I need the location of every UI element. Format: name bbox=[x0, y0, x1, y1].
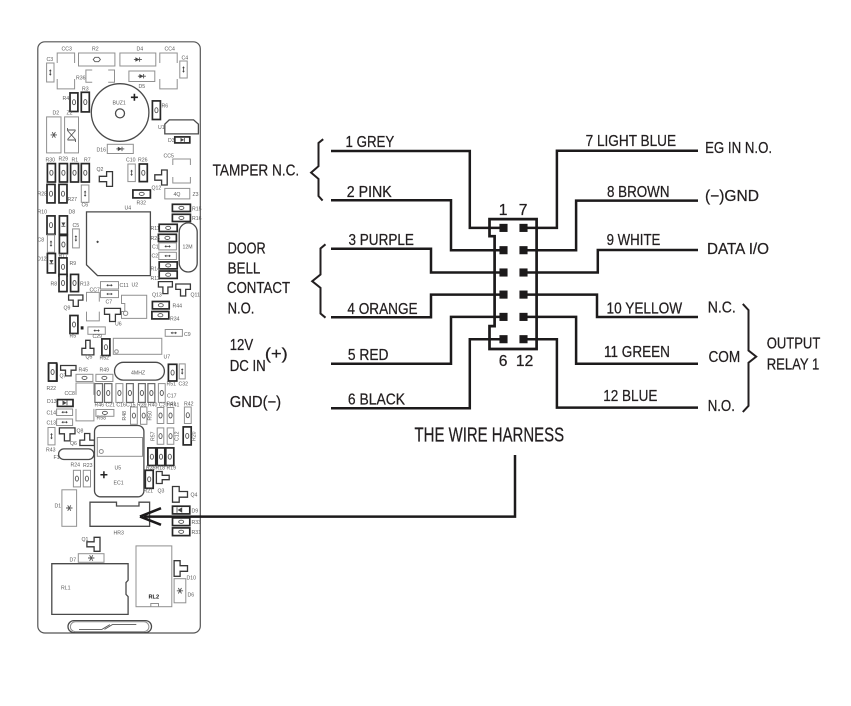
connector pins bbox=[499, 224, 507, 232]
svg-text:Q2: Q2 bbox=[97, 167, 104, 173]
connector body bbox=[490, 219, 537, 349]
svg-text:EG IN N.O.: EG IN N.O. bbox=[705, 140, 772, 157]
resistor R3 bbox=[81, 92, 89, 112]
capacitor C4 bbox=[180, 61, 187, 78]
svg-text:R25: R25 bbox=[151, 236, 161, 242]
svg-text:Z3: Z3 bbox=[193, 192, 199, 198]
diode D3 bbox=[175, 137, 190, 143]
svg-text:12V: 12V bbox=[230, 337, 254, 354]
resistor R13 bbox=[71, 274, 79, 291]
svg-text:R22: R22 bbox=[47, 386, 57, 392]
svg-text:C4: C4 bbox=[182, 56, 189, 62]
resistor R5 bbox=[70, 316, 78, 334]
svg-text:BELL: BELL bbox=[228, 261, 261, 278]
board slot bbox=[68, 621, 152, 633]
svg-text:Q11: Q11 bbox=[191, 293, 201, 299]
resistor R35 bbox=[148, 448, 156, 466]
wire 2 pink bbox=[331, 200, 504, 250]
svg-text:R10: R10 bbox=[38, 210, 48, 216]
svg-text:R52: R52 bbox=[100, 356, 110, 362]
svg-text:R45: R45 bbox=[79, 368, 89, 374]
svg-text:U2: U2 bbox=[132, 283, 139, 289]
buzzer plus mark bbox=[131, 94, 138, 101]
LED D6 bbox=[174, 579, 186, 603]
svg-text:(+): (+) bbox=[265, 346, 288, 363]
svg-text:R34: R34 bbox=[170, 317, 180, 323]
resistor R20 bbox=[183, 427, 191, 445]
svg-text:RELAY 1: RELAY 1 bbox=[767, 356, 820, 373]
resistor R11 bbox=[159, 224, 177, 231]
wire 5 red bbox=[331, 317, 504, 364]
svg-text:D13: D13 bbox=[47, 399, 57, 405]
wire 10 yellow bbox=[524, 295, 699, 317]
transistor Q4 bbox=[173, 487, 188, 503]
svg-text:6 BLACK: 6 BLACK bbox=[348, 392, 406, 409]
svg-text:R7: R7 bbox=[84, 158, 91, 164]
svg-text:R29: R29 bbox=[59, 157, 69, 163]
wire 4 orange bbox=[331, 295, 504, 318]
IC U2 bbox=[122, 295, 147, 318]
transistor Q11 bbox=[176, 284, 191, 296]
diode D5 bbox=[129, 71, 155, 82]
buzzer BUZ1 body bbox=[91, 84, 149, 142]
harness arrowhead bbox=[140, 508, 161, 525]
part bank6 bbox=[148, 384, 155, 403]
resistor R30 bbox=[47, 164, 55, 182]
svg-text:R15: R15 bbox=[192, 207, 202, 213]
svg-text:1: 1 bbox=[499, 202, 508, 219]
svg-text:R24: R24 bbox=[71, 463, 81, 469]
svg-text:N.O.: N.O. bbox=[708, 398, 735, 415]
resistor R44 bbox=[152, 302, 169, 309]
LED D7 bbox=[78, 554, 104, 563]
IC U4 bbox=[87, 212, 151, 276]
svg-text:GND(−): GND(−) bbox=[230, 394, 281, 411]
capacitor C11 bbox=[101, 282, 119, 289]
buzzer BUZ1 hole bbox=[116, 109, 125, 118]
svg-text:R50: R50 bbox=[148, 411, 154, 421]
svg-text:7 LIGHT BLUE: 7 LIGHT BLUE bbox=[586, 133, 677, 150]
LED D1 bbox=[62, 490, 77, 527]
capacitor C32 bbox=[179, 364, 185, 379]
wire 1 grey bbox=[331, 151, 504, 228]
wire 9 white bbox=[524, 250, 699, 273]
resistor R18 bbox=[157, 448, 165, 466]
svg-text:C11: C11 bbox=[120, 283, 129, 289]
capacitor C5 bbox=[73, 229, 80, 248]
svg-text:R57: R57 bbox=[151, 431, 157, 441]
diode D8 bbox=[59, 216, 67, 234]
svg-text:Z2: Z2 bbox=[67, 111, 73, 117]
PCB board outline bbox=[38, 42, 201, 633]
resistor R21 bbox=[145, 470, 153, 488]
svg-text:THE WIRE HARNESS: THE WIRE HARNESS bbox=[415, 425, 565, 447]
transistor Q3 bbox=[156, 472, 169, 484]
capacitor R50a bbox=[141, 407, 147, 424]
svg-text:R8: R8 bbox=[51, 282, 58, 288]
transistor D10 bbox=[174, 561, 187, 577]
transistor Q1 bbox=[87, 537, 100, 551]
svg-text:R26: R26 bbox=[138, 158, 148, 164]
IC U5 EC1 bbox=[95, 426, 144, 497]
diode D4 bbox=[120, 53, 156, 66]
diode D13 bbox=[57, 400, 73, 407]
svg-text:3 PURPLE: 3 PURPLE bbox=[349, 232, 414, 249]
svg-text:DATA I/O: DATA I/O bbox=[707, 241, 769, 258]
LED D2 bbox=[47, 117, 61, 153]
resistor R10 bbox=[47, 216, 55, 234]
svg-text:C17: C17 bbox=[167, 394, 177, 400]
fuse F1 bbox=[59, 449, 94, 460]
svg-text:R32: R32 bbox=[137, 201, 147, 207]
svg-text:R6: R6 bbox=[162, 104, 169, 110]
svg-text:C14: C14 bbox=[47, 411, 57, 417]
transistor Q5 bbox=[82, 340, 94, 355]
transistor U6 bbox=[105, 308, 121, 321]
resistor R19 bbox=[166, 448, 174, 466]
svg-text:R33: R33 bbox=[192, 520, 202, 526]
svg-text:COM: COM bbox=[709, 349, 741, 366]
svg-text:Q4: Q4 bbox=[191, 493, 198, 499]
brace tamper bbox=[311, 139, 323, 200]
part R57 bbox=[157, 428, 164, 444]
svg-text:U5: U5 bbox=[115, 466, 122, 472]
svg-text:D10: D10 bbox=[187, 576, 197, 582]
svg-text:R30: R30 bbox=[46, 158, 56, 164]
svg-text:R46 C21 C16: R46 C21 C16 bbox=[95, 403, 127, 409]
resistor R12 bbox=[159, 271, 177, 278]
svg-text:R48: R48 bbox=[122, 411, 128, 421]
svg-text:C13: C13 bbox=[47, 421, 57, 427]
wire 3 purple bbox=[331, 249, 504, 273]
resistor R33 bbox=[173, 518, 190, 526]
svg-text:C6: C6 bbox=[82, 203, 89, 209]
wire 6 black bbox=[331, 339, 504, 408]
capacitor C8 bbox=[47, 235, 54, 252]
resistor R25 bbox=[158, 234, 176, 241]
svg-text:R21: R21 bbox=[144, 489, 154, 495]
svg-text:6: 6 bbox=[499, 353, 508, 370]
svg-text:R4: R4 bbox=[63, 96, 70, 102]
transistor Q13 bbox=[158, 282, 172, 294]
svg-text:D4: D4 bbox=[137, 47, 144, 53]
zener Z3 bbox=[165, 188, 190, 199]
resistor R22 bbox=[49, 363, 57, 381]
svg-text:C29: C29 bbox=[93, 334, 103, 340]
svg-text:1 GREY: 1 GREY bbox=[346, 134, 395, 151]
resistor R31 bbox=[173, 528, 190, 536]
wire 12 blue bbox=[524, 339, 699, 407]
resistor R29 bbox=[59, 164, 67, 182]
svg-text:Q1: Q1 bbox=[82, 537, 89, 543]
svg-text:R2: R2 bbox=[92, 47, 99, 53]
svg-text:10 YELLOW: 10 YELLOW bbox=[607, 300, 683, 317]
svg-text:C7: C7 bbox=[106, 300, 113, 306]
svg-text:4 ORANGE: 4 ORANGE bbox=[347, 301, 417, 318]
brace output relay bbox=[743, 304, 756, 412]
relay RL2 bbox=[136, 546, 172, 607]
svg-text:R31: R31 bbox=[192, 530, 202, 536]
diode D9 bbox=[173, 506, 190, 514]
svg-text:7: 7 bbox=[519, 202, 528, 219]
svg-text:R20: R20 bbox=[191, 431, 197, 441]
svg-text:12: 12 bbox=[516, 353, 533, 370]
capacitor C7 bbox=[101, 290, 119, 297]
capacitor C13 bbox=[57, 419, 73, 426]
resistor Q7r bbox=[49, 364, 57, 381]
svg-text:D3: D3 bbox=[168, 138, 175, 144]
svg-text:C9: C9 bbox=[184, 332, 191, 338]
svg-text:11 GREEN: 11 GREEN bbox=[604, 344, 670, 361]
svg-text:C1: C1 bbox=[152, 245, 159, 251]
resistor R15 bbox=[172, 204, 190, 211]
svg-text:D1: D1 bbox=[55, 504, 62, 510]
svg-text:N.C.: N.C. bbox=[708, 300, 736, 317]
svg-text:RL2: RL2 bbox=[149, 595, 160, 601]
svg-text:EC1: EC1 bbox=[114, 481, 124, 487]
svg-text:R16: R16 bbox=[192, 216, 202, 222]
svg-text:R3: R3 bbox=[82, 87, 89, 93]
svg-text:U4: U4 bbox=[125, 206, 132, 212]
svg-text:D6: D6 bbox=[188, 593, 195, 599]
capacitor C9 bbox=[165, 330, 182, 337]
svg-text:Q9: Q9 bbox=[64, 306, 71, 312]
svg-text:R51: R51 bbox=[167, 382, 177, 388]
svg-text:2 PINK: 2 PINK bbox=[347, 184, 392, 201]
svg-text:Q5: Q5 bbox=[86, 355, 93, 361]
svg-text:TAMPER N.C.: TAMPER N.C. bbox=[213, 163, 300, 180]
svg-text:C2: C2 bbox=[152, 254, 159, 260]
svg-text:BUZ1: BUZ1 bbox=[113, 101, 126, 107]
part m1 bbox=[157, 408, 164, 424]
svg-text:R1: R1 bbox=[72, 158, 79, 164]
svg-text:D9: D9 bbox=[192, 509, 199, 515]
resistor R52 bbox=[102, 339, 110, 356]
svg-text:F1: F1 bbox=[54, 455, 60, 461]
crystal 4MHZ bbox=[115, 362, 165, 380]
svg-text:D8: D8 bbox=[69, 210, 76, 216]
resistor R34 bbox=[152, 312, 169, 319]
part m2 bbox=[167, 408, 174, 424]
resistor R26 bbox=[139, 164, 147, 182]
svg-text:U1: U1 bbox=[158, 125, 165, 131]
svg-text:D2: D2 bbox=[53, 111, 60, 117]
svg-text:4MHZ: 4MHZ bbox=[131, 371, 145, 377]
transistor Q7 bbox=[61, 366, 76, 376]
capacitor C10 bbox=[128, 164, 135, 182]
svg-text:R11: R11 bbox=[151, 226, 160, 232]
diode D12 bbox=[47, 254, 55, 273]
capacitor C6 bbox=[81, 185, 89, 202]
svg-text:R49: R49 bbox=[100, 368, 110, 374]
resistor R27 bbox=[59, 184, 67, 203]
svg-text:R28: R28 bbox=[38, 192, 48, 198]
svg-text:CC8: CC8 bbox=[65, 391, 75, 397]
part C12c bbox=[167, 428, 174, 444]
svg-text:Q13: Q13 bbox=[152, 293, 162, 299]
transistor Q9 bbox=[69, 295, 83, 306]
svg-text:D12: D12 bbox=[37, 257, 47, 263]
resistor R17 bbox=[59, 236, 67, 254]
IC U7 bbox=[113, 338, 162, 354]
part bank5 bbox=[139, 384, 146, 403]
svg-text:DOOR: DOOR bbox=[228, 240, 266, 257]
part bank1 bbox=[95, 384, 103, 403]
resistor R8b bbox=[59, 274, 67, 291]
svg-text:D5: D5 bbox=[139, 84, 146, 90]
transistor Q8 bbox=[80, 434, 95, 446]
resistor R1 bbox=[71, 164, 79, 182]
svg-text:Q3: Q3 bbox=[158, 489, 165, 495]
part bank4 bbox=[127, 384, 134, 403]
relay RL1 bbox=[52, 564, 128, 615]
svg-text:R23: R23 bbox=[83, 463, 93, 469]
svg-text:D16: D16 bbox=[97, 148, 107, 154]
wire 11 green bbox=[524, 317, 699, 364]
svg-text:9 WHITE: 9 WHITE bbox=[607, 232, 661, 249]
svg-text:CC4: CC4 bbox=[165, 47, 175, 53]
svg-text:Q12: Q12 bbox=[152, 186, 162, 192]
svg-text:4Q: 4Q bbox=[174, 192, 181, 198]
svg-text:HR3: HR3 bbox=[114, 531, 124, 537]
svg-text:CONTACT: CONTACT bbox=[227, 280, 291, 297]
svg-text:R41: R41 bbox=[167, 402, 177, 408]
capacitor C2 bbox=[159, 252, 177, 259]
svg-text:C5: C5 bbox=[73, 223, 80, 229]
svg-text:8 BROWN: 8 BROWN bbox=[607, 184, 670, 201]
wire 7 light blue bbox=[524, 151, 699, 228]
svg-text:U6: U6 bbox=[115, 322, 122, 328]
svg-text:C3: C3 bbox=[47, 57, 54, 63]
resistor R28 bbox=[47, 184, 55, 203]
svg-text:R13: R13 bbox=[80, 282, 90, 288]
IC U1 bbox=[165, 120, 199, 134]
capacitor R43 bbox=[48, 428, 55, 445]
resistor R14 bbox=[159, 262, 177, 269]
transistor Q6 bbox=[59, 428, 75, 441]
zener Z2 bbox=[65, 117, 79, 153]
svg-text:N.O.: N.O. bbox=[228, 300, 255, 317]
svg-text:R9: R9 bbox=[70, 261, 77, 267]
diode D16 bbox=[107, 144, 133, 153]
svg-text:12M: 12M bbox=[183, 245, 193, 251]
transistor Q2 bbox=[99, 172, 112, 187]
svg-text:CC3: CC3 bbox=[62, 47, 72, 53]
svg-text:R44: R44 bbox=[173, 304, 183, 310]
capacitor R48 bbox=[131, 407, 138, 424]
test point bbox=[81, 326, 84, 329]
capacitor C14 bbox=[57, 409, 73, 416]
resistor R9 bbox=[59, 258, 67, 276]
svg-text:R43: R43 bbox=[46, 448, 56, 454]
resistor R51 bbox=[168, 364, 176, 381]
svg-text:5 RED: 5 RED bbox=[348, 347, 389, 364]
part bank2 bbox=[105, 384, 112, 403]
svg-text:U7: U7 bbox=[164, 355, 171, 361]
resistor R32 bbox=[133, 190, 151, 198]
svg-text:C8: C8 bbox=[38, 238, 45, 244]
resistor R6 bbox=[152, 101, 160, 120]
svg-text:(−)GND: (−)GND bbox=[705, 188, 759, 205]
capacitor C1 bbox=[159, 243, 177, 250]
brace doorbell bbox=[312, 244, 325, 317]
svg-text:C12: C12 bbox=[174, 431, 180, 441]
capacitor C3 bbox=[47, 63, 54, 82]
resistor R7 bbox=[81, 164, 89, 182]
svg-text:R5: R5 bbox=[70, 334, 77, 340]
connector HR3 bbox=[90, 502, 150, 526]
resistor R4 bbox=[70, 93, 78, 112]
svg-text:12 BLUE: 12 BLUE bbox=[603, 388, 657, 405]
svg-text:Q6: Q6 bbox=[70, 441, 77, 447]
svg-text:R36: R36 bbox=[76, 76, 86, 82]
svg-text:RL1: RL1 bbox=[61, 586, 71, 592]
capacitor C29 bbox=[88, 327, 105, 334]
harness pointer line bbox=[144, 455, 515, 517]
transistor Q12 bbox=[155, 170, 167, 185]
svg-text:C32: C32 bbox=[179, 382, 189, 388]
wire 8 brown bbox=[524, 201, 699, 251]
svg-text:R27: R27 bbox=[68, 197, 78, 203]
svg-text:OUTPUT: OUTPUT bbox=[767, 336, 821, 353]
resistor R16 bbox=[172, 214, 190, 221]
crystal 12M bbox=[179, 223, 197, 272]
svg-text:DC IN: DC IN bbox=[230, 358, 266, 375]
part bank7 bbox=[158, 384, 165, 403]
svg-text:D7: D7 bbox=[70, 558, 77, 564]
part bank3 bbox=[116, 384, 123, 403]
svg-text:Q8: Q8 bbox=[77, 429, 84, 435]
svg-text:C10: C10 bbox=[126, 158, 136, 164]
